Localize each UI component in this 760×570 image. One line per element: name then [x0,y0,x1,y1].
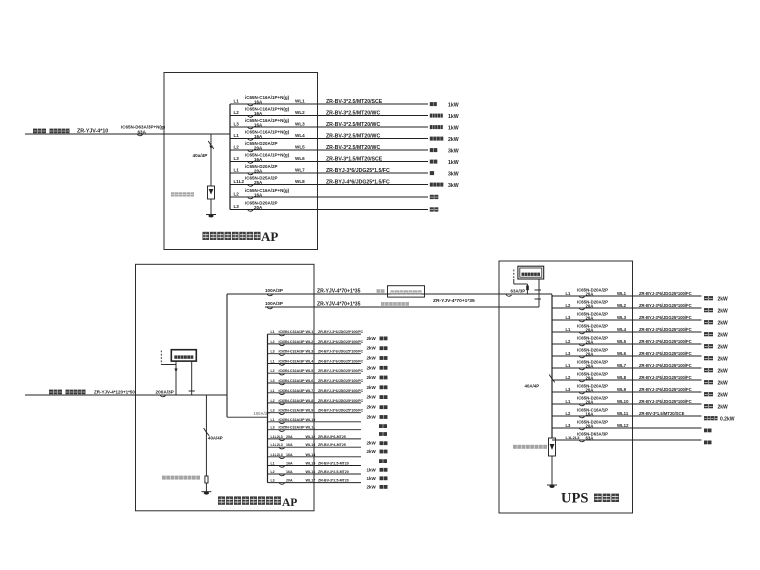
svg-text:2kW: 2kW [718,368,729,374]
svg-text:L1: L1 [566,291,572,296]
surge arrester branch wire AP2 [205,395,207,476]
panel enclosure UPS distribution box [499,261,633,513]
svg-text:16A: 16A [286,470,293,474]
svg-text:WL3: WL3 [295,122,305,127]
svg-text:0.2kW: 0.2kW [720,416,735,422]
surge protective device F2 (SPD) AP2 [205,476,208,483]
svg-text:iC65N-C16A/1P+N(g): iC65N-C16A/1P+N(g) [245,107,290,112]
svg-text:2kW: 2kW [448,137,459,143]
svg-text:L2: L2 [234,110,240,115]
breaker circuit row 3 AP1 (WL3): L3 iC65N-C16A/1P+N(g) 16A [230,118,459,131]
svg-text:WL2: WL2 [306,340,314,344]
SPD label (gray) UPS [513,445,547,449]
svg-text:ZR-BV-3*2.5-MT20: ZR-BV-3*2.5-MT20 [318,470,349,474]
svg-text:63A/3P: 63A/3P [511,288,526,293]
breaker circuit row 13 UPS (spare): L1L2L3 iC65N-D63A/3P 63A [552,432,712,445]
breaker hook 40A/4P on UPS SPD section [549,375,555,383]
svg-text:2kW: 2kW [367,336,377,341]
ground symbol AP1 SPD [206,214,216,216]
svg-text:2kW: 2kW [718,308,729,314]
svg-text:ZR-BYJ-4*6/JDG25*1.5/FC: ZR-BYJ-4*6/JDG25*1.5/FC [326,180,390,186]
svg-text:3kW: 3kW [448,183,459,189]
svg-text:L3: L3 [566,387,572,392]
panel title AP2 (information room mains distribution box AP) [218,496,297,508]
breaker QF0 200A/3P incoming AP2 [156,389,174,396]
svg-text:WL4: WL4 [306,360,315,364]
svg-text:ZR-BYJ-3*6/JDG25*1.5/FC: ZR-BYJ-3*6/JDG25*1.5/FC [326,168,390,174]
svg-text:WL12: WL12 [306,435,316,439]
svg-text:ZR-YJV-4*70+1*35: ZR-YJV-4*70+1*35 [317,288,361,294]
svg-text:WL7: WL7 [306,389,314,393]
svg-text:WL6: WL6 [306,379,314,383]
svg-text:L1: L1 [271,360,275,364]
surge protective device F3 (SPD) UPS [549,438,556,456]
annotation (gray) before junction box [377,289,385,293]
svg-text:ZR-BYJ-3*6/JDG25*100/FC: ZR-BYJ-3*6/JDG25*100/FC [318,340,364,344]
breaker circuit row 17 AP2 (WL17): L3 20A [268,479,388,490]
breaker circuit row 1 AP2 (WL1): L1 iC65N-C32A/3P [268,330,388,341]
svg-text:2kW: 2kW [367,395,377,400]
svg-text:ZR-BYJ-3*6/JDG25*100/FC: ZR-BYJ-3*6/JDG25*100/FC [639,363,692,368]
svg-text:WL9: WL9 [306,409,314,413]
breaker circuit row 9 UPS (WL9): L3 iC65N-D20A/2P 20A [552,384,728,399]
junction box (factory 10kV substation) [388,286,425,297]
svg-text:WL8: WL8 [617,375,627,380]
breaker 100A/3P on feed row A [265,288,283,296]
svg-text:ZR-YJV-4*70+1*35: ZR-YJV-4*70+1*35 [317,301,361,307]
svg-text:L3: L3 [566,351,572,356]
svg-text:16A: 16A [286,462,293,466]
svg-text:3kW: 3kW [448,171,459,177]
breaker circuit row 8 AP1 (WL8): L1L2 iC65N-D25A/2P 25A [230,176,459,189]
svg-text:WL1: WL1 [306,330,314,334]
breaker blob on ATS output [526,286,529,291]
svg-text:200A/3P: 200A/3P [156,389,174,394]
svg-text:L1: L1 [566,363,572,368]
svg-text:63A: 63A [138,129,147,134]
wire meter second tap with tick [191,361,193,395]
panel title AP1 (monitoring room mains distribution box AP) [203,229,279,244]
svg-text:100A/3P: 100A/3P [265,288,283,293]
svg-text:L3: L3 [566,423,572,428]
svg-text:iC65N-C16A/1P+N(g): iC65N-C16A/1P+N(g) [245,118,290,123]
wire meter voltage tap with arrow [175,361,177,395]
sub-feed link 100A/3P to rack bus AP2 [227,416,268,418]
svg-text:ZR-BV-3*2.5/MT20/WC: ZR-BV-3*2.5/MT20/WC [326,134,380,140]
svg-text:2kW: 2kW [367,441,377,446]
breaker hook SPD branch AP2 [204,428,210,436]
svg-text:ZR-BV-5*4-MT25: ZR-BV-5*4-MT25 [318,443,346,447]
wire feed row B (generator supply) with riser to ATS [265,306,539,308]
svg-text:20A: 20A [586,399,594,404]
breaker 63A/3P on UPS feeder [506,288,525,296]
svg-text:16A: 16A [254,134,263,139]
breaker circuit row 3 UPS (WL3): L3 iC65N-D20A/2P 20A [552,312,728,327]
svg-text:L2: L2 [566,411,572,416]
svg-text:iC65N-C32A/3P: iC65N-C32A/3P [279,379,306,383]
svg-text:WL8: WL8 [295,179,305,184]
svg-text:WL10: WL10 [306,418,316,422]
panel title UPS distribution box [561,491,619,507]
distribution bus UPS [551,295,553,439]
ground symbol UPS SPD [547,484,557,486]
svg-text:WL6: WL6 [617,351,627,356]
breaker circuit row 13 AP2 (WL13): L1L2L3 16A [268,443,388,454]
svg-text:WL12: WL12 [617,423,629,428]
svg-text:20A: 20A [586,363,594,368]
crossing ticks on row B riser [535,289,542,291]
breaker circuit row 10 AP1 (spare): L3 iC65N-D20A/2P 20A [230,201,438,212]
surge arrester branch wire AP1 [210,134,212,186]
svg-text:ZR-BV-3*2.5-MT20: ZR-BV-3*2.5-MT20 [318,479,349,483]
breaker circuit row 14 AP2 (WL14): L1L2L3 16A [268,453,388,463]
wire SPD to ground AP2 [205,483,207,492]
breaker circuit row 10 UPS (WL10): L1 iC65N-D20A/2P 20A [552,396,728,411]
svg-text:WL5: WL5 [617,339,627,344]
wire meter CT jog [161,364,176,366]
panel enclosure AP2 (information room distribution box) [136,264,315,511]
svg-text:20A: 20A [286,479,293,483]
svg-text:ZR-BYJ-3*6/JDG25*100/FC: ZR-BYJ-3*6/JDG25*100/FC [639,303,692,308]
svg-text:WL2: WL2 [295,110,305,115]
svg-text:WL8: WL8 [306,399,314,403]
svg-text:ZR-BV-3*2.5/MT20/WC: ZR-BV-3*2.5/MT20/WC [326,145,380,151]
wire SPD to ground UPS [551,456,553,485]
svg-text:L3: L3 [234,204,240,209]
svg-text:ZR-YJV-4*120+1*50: ZR-YJV-4*120+1*50 [94,390,135,395]
svg-text:20A: 20A [586,375,594,380]
breaker circuit row 16 AP2 (WL16): L2 16A [268,470,388,481]
svg-text:ZR-BYJ-3*6/JDG25*100/FC: ZR-BYJ-3*6/JDG25*100/FC [639,387,692,392]
svg-text:AP: AP [282,497,297,509]
svg-text:2kW: 2kW [367,405,377,410]
svg-text:20A: 20A [254,168,263,173]
busbar AP1 [229,104,231,210]
svg-text:ZR-BYJ-3*6/JDG25*100/FC: ZR-BYJ-3*6/JDG25*100/FC [639,375,692,380]
svg-text:ZR-BYJ-3*6/JDG25*100/FC: ZR-BYJ-3*6/JDG25*100/FC [639,399,692,404]
svg-text:WL15: WL15 [306,462,316,466]
svg-text:WL2: WL2 [617,303,627,308]
SPD label (gray) AP1 [171,192,194,196]
breaker circuit row 9 AP2 (WL9): L3 iC65N-C32A/3P [268,409,388,420]
svg-text:2kW: 2kW [718,332,729,338]
ground symbol AP2 SPD [201,491,211,493]
wire incoming feeder to AP1 [25,133,230,135]
svg-text:2kW: 2kW [718,344,729,350]
svg-text:L1: L1 [271,418,275,422]
svg-text:40A/4P: 40A/4P [525,384,540,389]
svg-text:16A: 16A [286,443,293,447]
svg-text:ZR-BV-5*6-MT25: ZR-BV-5*6-MT25 [318,435,346,439]
svg-text:2kW: 2kW [367,415,377,420]
breaker circuit row 5 AP2 (WL5): L2 iC65N-C32A/3P [268,369,388,380]
wire incoming feeder to AP2 [25,394,227,396]
svg-text:iC65N-C32A/3P: iC65N-C32A/3P [279,369,306,373]
svg-text:L1: L1 [271,462,275,466]
svg-text:100A/3P: 100A/3P [265,301,283,306]
svg-text:ZR-BYJ-3*6/JDG25*100/FC: ZR-BYJ-3*6/JDG25*100/FC [318,409,364,413]
svg-text:20A: 20A [586,303,594,308]
svg-text:L3: L3 [271,479,275,483]
svg-text:20A: 20A [254,205,263,210]
svg-text:L2: L2 [271,470,275,474]
power meter M1 (smart energy acquisition meter) [171,350,196,361]
svg-text:iC65N-C16A/1P+N(g): iC65N-C16A/1P+N(g) [245,130,290,135]
svg-text:iC65N-C16A/1P+N(g): iC65N-C16A/1P+N(g) [245,95,290,100]
svg-text:2kW: 2kW [718,296,729,302]
svg-text:iC65N-C16A/1P+N(g): iC65N-C16A/1P+N(g) [245,153,290,158]
svg-text:ZR-BYJ-3*6/JDG25*100/FC: ZR-BYJ-3*6/JDG25*100/FC [639,351,692,356]
svg-text:AP: AP [261,229,278,244]
svg-text:L3: L3 [566,315,572,320]
svg-text:2kW: 2kW [367,346,377,351]
svg-text:40A/4P: 40A/4P [208,436,223,441]
svg-text:WL3: WL3 [306,350,314,354]
svg-text:L2: L2 [566,375,572,380]
breaker circuit row 7 AP2 (WL7): L1 iC65N-C32A/3P [268,389,388,400]
breaker circuit row 4 UPS (WL4): L1 iC65N-D20A/2P 20A [552,324,728,339]
svg-text:ZR-BYJ-3*6/JDG25*100/FC: ZR-BYJ-3*6/JDG25*100/FC [318,379,364,383]
svg-text:L2: L2 [566,303,572,308]
svg-text:16A: 16A [254,192,263,197]
svg-text:iC65N-C32A/3P: iC65N-C32A/3P [279,426,306,430]
svg-text:20A: 20A [254,145,263,150]
dashed link left of ATS [513,270,515,279]
wire SPD to ground AP1 [210,199,212,214]
wire outgoing feed row A (normal supply to ATS) [227,293,552,295]
breaker QF0 iC65N-D63A/3P+N incoming AP1 [121,124,166,135]
breaker circuit row 11 AP2 (WL11): L3 iC65N-C32A/3P [268,426,388,436]
SPD label (gray) AP2 [162,476,200,480]
svg-text:UPS: UPS [561,491,588,507]
svg-text:WL4: WL4 [295,133,305,138]
svg-text:2kW: 2kW [718,392,729,398]
svg-text:16A: 16A [254,157,263,162]
svg-text:ZR-BYJ-3*6/JDG25*100/FC: ZR-BYJ-3*6/JDG25*100/FC [318,330,364,334]
svg-text:L1: L1 [234,168,240,173]
svg-text:WL17: WL17 [306,479,316,483]
svg-text:L3: L3 [271,379,275,383]
svg-text:L2: L2 [271,399,275,403]
svg-text:WL14: WL14 [306,453,317,457]
svg-text:ZR-BV-3*2.5-MT20: ZR-BV-3*2.5-MT20 [318,462,349,466]
riser bus AP2 [226,294,228,417]
breaker circuit row 5 AP1 (WL5): L2 iC65N-D20A/2P 20A [230,141,459,154]
svg-text:2kW: 2kW [718,356,729,362]
svg-text:L3: L3 [271,409,275,413]
svg-text:L1: L1 [234,133,240,138]
svg-text:L3: L3 [234,122,240,127]
breaker circuit row 8 UPS (WL8): L2 iC65N-D20A/2P 20A [552,372,728,387]
svg-text:ZR-BYJ-3*6/JDG25*100/FC: ZR-BYJ-3*6/JDG25*100/FC [318,350,364,354]
svg-text:iC65N-C32A/3P: iC65N-C32A/3P [279,350,306,354]
svg-text:ZR-BYJ-3*6/JDG25*100/FC: ZR-BYJ-3*6/JDG25*100/FC [318,360,364,364]
svg-text:iC65N-C32A/3P: iC65N-C32A/3P [279,330,306,334]
breaker circuit row 12 AP2 (WL12): L1L2L3 20A [268,435,388,446]
svg-text:ZR-BYJ-3*6/JDG25*100/FC: ZR-BYJ-3*6/JDG25*100/FC [639,327,692,332]
svg-text:L2: L2 [234,192,240,197]
breaker circuit row 1 AP1 (WL1): L1 iC65N-C16A/1P+N(g) 16A [230,95,459,108]
svg-text:20A: 20A [586,387,594,392]
svg-text:iC65N-C32A/3P: iC65N-C32A/3P [279,340,306,344]
svg-text:L2: L2 [271,369,275,373]
svg-text:1kW: 1kW [367,476,377,481]
svg-text:16A: 16A [586,411,594,416]
svg-text:16A: 16A [286,453,293,457]
svg-text:iC65N-C32A/3P: iC65N-C32A/3P [279,360,306,364]
svg-text:1kW: 1kW [448,160,459,166]
svg-text:WL10: WL10 [617,399,629,404]
svg-text:iC65N-C32A/3P: iC65N-C32A/3P [279,409,306,413]
svg-text:WL7: WL7 [617,363,627,368]
breaker hook on SPD branch AP1 [208,141,214,149]
svg-text:L1L2L3: L1L2L3 [271,443,283,447]
svg-text:ZR-BV-3*2.5/MT20/WC: ZR-BV-3*2.5/MT20/WC [326,122,380,128]
svg-text:iC65N-C32A/3P: iC65N-C32A/3P [279,418,306,422]
svg-text:20A: 20A [586,423,594,428]
svg-text:WL3: WL3 [617,315,627,320]
breaker circuit row 11 UPS (WL11): L2 iC65N-C16A/1P 16A [552,408,735,423]
svg-text:20A: 20A [586,339,594,344]
svg-text:iC65N-C32A/3P: iC65N-C32A/3P [279,389,306,393]
svg-text:WL16: WL16 [306,470,316,474]
breaker circuit row 2 AP2 (WL2): L2 iC65N-C32A/3P [268,340,388,351]
source annotation (gray) for AP1 feeder [33,129,70,134]
breaker circuit row 7 UPS (WL7): L1 iC65N-D20A/2P 20A [552,360,728,375]
svg-text:L3: L3 [271,350,275,354]
svg-text:2kW: 2kW [367,375,377,380]
svg-text:WL5: WL5 [295,145,305,150]
svg-text:WL1: WL1 [295,99,305,104]
svg-text:2kW: 2kW [367,365,377,370]
breaker circuit row 12 UPS (WL12): L3 iC65N-D20A/2P 20A [552,420,712,433]
svg-text:WL5: WL5 [306,369,314,373]
svg-text:2kW: 2kW [718,320,729,326]
svg-text:ZR-BYJ-3*6/JDG25*100/FC: ZR-BYJ-3*6/JDG25*100/FC [318,399,364,403]
breaker circuit row 4 AP2 (WL4): L1 iC65N-C32A/3P [268,360,388,371]
svg-text:L2: L2 [566,339,572,344]
svg-text:L1: L1 [566,399,572,404]
breaker circuit row 15 AP2 (WL15): L1 16A [268,462,388,473]
svg-text:L2: L2 [234,145,240,150]
svg-text:WL7: WL7 [295,168,305,173]
svg-text:2kW: 2kW [718,404,729,410]
svg-text:1kW: 1kW [367,467,377,472]
breaker circuit row 6 AP1 (WL6): L3 iC65N-C16A/1P+N(g) 16A [230,153,459,166]
svg-text:ZR-YJV-4*10: ZR-YJV-4*10 [77,129,108,135]
breaker circuit row 10 AP2 (WL10): L1 iC65N-C32A/3P [268,418,388,428]
CT dashed link to meter [160,351,162,365]
surge protective device F1 (SPD) AP1 [208,186,215,199]
svg-text:WL13: WL13 [306,443,316,447]
svg-text:ZR-BV-3*2.5/MT20/WC: ZR-BV-3*2.5/MT20/WC [326,111,380,117]
svg-text:L1L2L3: L1L2L3 [271,435,283,439]
svg-text:1kW: 1kW [448,102,459,108]
svg-text:L3: L3 [234,156,240,161]
svg-text:20A: 20A [286,435,293,439]
svg-text:20A: 20A [586,315,594,320]
svg-text:1kW: 1kW [448,125,459,131]
breaker circuit row 7 AP1 (WL7): L1 iC65N-D20A/2P 20A [230,164,459,177]
svg-text:2kW: 2kW [367,449,377,454]
svg-text:L3: L3 [271,426,275,430]
svg-text:ZR-BYJ-3*6/JDG25*100/FC: ZR-BYJ-3*6/JDG25*100/FC [318,389,364,393]
breaker circuit row 4 AP1 (WL4): L1 iC65N-C16A/1P+N(g) 16A [230,130,459,143]
breaker circuit row 9 AP1 (spare): L2 iC65N-C16A/1P+N(g) 16A [230,188,438,199]
distribution bus AP2 rack circuits [267,334,269,483]
svg-text:ZR-BV-3*1.5/MT20/SCE: ZR-BV-3*1.5/MT20/SCE [326,157,383,163]
svg-text:20A: 20A [586,291,594,296]
svg-text:ZR-BV-3*2.5/MT20/SCE: ZR-BV-3*2.5/MT20/SCE [326,99,383,105]
svg-text:L1: L1 [271,330,275,334]
breaker circuit row 8 AP2 (WL8): L2 iC65N-C32A/3P [268,399,388,410]
svg-text:2kW: 2kW [367,385,377,390]
svg-text:2kW: 2kW [367,356,377,361]
svg-text:25A: 25A [254,180,263,185]
breaker 100A/3P on feed row B [265,301,283,309]
breaker circuit row 6 AP2 (WL6): L3 iC65N-C32A/3P [268,379,388,390]
svg-text:20A: 20A [586,327,594,332]
svg-text:2kW: 2kW [718,380,729,386]
svg-text:2kW: 2kW [367,484,377,489]
svg-text:L1: L1 [234,99,240,104]
svg-text:63A: 63A [586,435,594,440]
svg-text:WL11: WL11 [617,411,629,416]
breaker circuit row 1 UPS (WL1): L1 iC65N-D20A/2P 20A [552,288,728,303]
automatic transfer switch ATS (dual power switch box) [518,266,544,279]
svg-text:16A: 16A [254,99,263,104]
svg-text:40a/4P: 40a/4P [193,153,208,158]
svg-text:L1: L1 [271,389,275,393]
svg-text:L1L2: L1L2 [234,179,245,184]
svg-text:ZR-BYJ-3*6/JDG25*100/FC: ZR-BYJ-3*6/JDG25*100/FC [639,315,692,320]
breaker circuit row 5 UPS (WL5): L2 iC65N-D20A/2P 20A [552,336,728,351]
breaker circuit row 2 UPS (WL2): L2 iC65N-D20A/2P 20A [552,300,728,315]
svg-text:3kW: 3kW [448,148,459,154]
svg-text:L2: L2 [271,340,275,344]
svg-text:L1L2L3: L1L2L3 [271,453,283,457]
breaker circuit row 3 AP2 (WL3): L3 iC65N-C32A/3P [268,350,388,361]
annotation (gray): from diesel generator [381,302,409,306]
svg-text:ZR-BYJ-3*6/JDG25*100/FC: ZR-BYJ-3*6/JDG25*100/FC [639,291,692,296]
svg-text:WL9: WL9 [617,387,627,392]
svg-text:L1: L1 [566,327,572,332]
svg-text:WL11: WL11 [306,426,316,430]
svg-text:20A: 20A [586,351,594,356]
svg-text:ZR-BYJ-3*6/JDG25*100/FC: ZR-BYJ-3*6/JDG25*100/FC [639,339,692,344]
svg-text:WL1: WL1 [617,291,627,296]
svg-text:iC65N-C16A/1P+N(g): iC65N-C16A/1P+N(g) [245,188,290,193]
panel enclosure AP1 (monitoring room distribution box) [164,73,318,250]
svg-text:ZR-BV-3*1.5/MT20/SCE: ZR-BV-3*1.5/MT20/SCE [639,411,685,416]
svg-text:WL4: WL4 [617,327,627,332]
svg-text:WL6: WL6 [295,156,305,161]
breaker circuit row 2 AP1 (WL2): L2 iC65N-C16A/1P+N(g) 16A [230,107,459,120]
svg-text:16A: 16A [254,122,263,127]
svg-text:ZR-BYJ-3*6/JDG25*100/FC: ZR-BYJ-3*6/JDG25*100/FC [318,369,364,373]
source annotation (gray) for AP2 feeder [49,390,86,395]
svg-text:iC65N-C32A/3P: iC65N-C32A/3P [279,399,306,403]
svg-text:ZR-YJV-4*70+1*35: ZR-YJV-4*70+1*35 [433,298,475,304]
breaker circuit row 6 UPS (WL6): L3 iC65N-D20A/2P 20A [552,348,728,363]
wire ATS output L-connector [513,279,515,284]
svg-text:16A: 16A [254,111,263,116]
svg-text:1kW: 1kW [448,114,459,120]
